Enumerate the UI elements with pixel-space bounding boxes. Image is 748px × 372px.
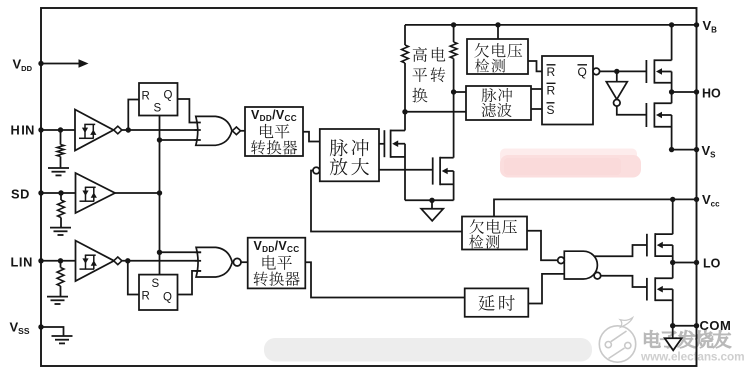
node HIN-R — [58, 127, 63, 132]
svg-text:HO: HO — [702, 87, 721, 101]
pulse amplifier U3 — [320, 129, 379, 181]
node LO — [670, 260, 675, 265]
svg-text:Q: Q — [163, 292, 172, 304]
transistor Q3 gate bar — [645, 60, 647, 83]
svg-text:Q: Q — [164, 90, 173, 102]
resistor R4 — [404, 25, 406, 45]
wire common source — [405, 199, 454, 201]
G3 output bubble — [594, 272, 601, 279]
transistor Q1 gate bar — [383, 130, 385, 157]
wire U5 to U6 Sbar — [531, 108, 542, 110]
VDD arrowhead — [79, 59, 89, 67]
transistor Q5 drain tap — [655, 233, 673, 235]
svg-text:HIN: HIN — [11, 123, 35, 138]
U6 Qbar bubble — [593, 68, 600, 75]
U2 label line2 — [260, 124, 273, 138]
wire HIN — [41, 129, 75, 131]
pulse filter U5 — [466, 86, 531, 120]
transistor Q1 source tap — [391, 156, 405, 158]
U3 label — [330, 139, 348, 156]
label high-level-shift — [413, 47, 427, 62]
wire U11 to G3 — [528, 274, 564, 304]
transistor Q4 gate bar — [645, 103, 647, 127]
pin VDD stub — [41, 63, 81, 65]
ground (COM) — [672, 326, 674, 339]
wire UV2 to U3 (feedback) — [311, 171, 462, 232]
resistor R2 (SD pulldown) — [60, 193, 62, 200]
wire Q1 source riser — [404, 144, 406, 201]
wire U1 Q to NOR G1 — [178, 99, 201, 123]
wire Q3 drain riser — [671, 25, 673, 60]
transistor Q6 body arrow — [657, 286, 663, 293]
transistor Q5 channel bar — [654, 233, 656, 257]
transistor Q2 body arrow — [442, 168, 448, 175]
NOR gate G1 — [196, 116, 232, 145]
wire VCC rail — [494, 199, 697, 216]
wire U2 to U3 — [303, 132, 320, 142]
decor — [500, 149, 637, 164]
node SD-R — [58, 190, 63, 195]
RS latch U6 — [542, 56, 593, 125]
ground (R1) — [48, 168, 69, 175]
svg-text:S: S — [152, 278, 160, 290]
level shifter U10 — [248, 238, 306, 289]
ground (R2) — [50, 228, 71, 235]
wire G1 to U2 — [241, 130, 246, 132]
UV detector U4 — [467, 39, 528, 74]
transistor Q4 source tap — [654, 126, 671, 128]
node VS — [669, 147, 674, 152]
wire LIN to U12 R — [128, 261, 139, 295]
NOR gate G2 — [196, 247, 232, 277]
A1 output diamond bubble — [114, 126, 122, 134]
A3 output diamond bubble — [114, 257, 122, 265]
node LIN-R — [58, 258, 63, 263]
resistor R5 — [453, 25, 455, 42]
wire U12 Q to G2 — [178, 271, 202, 295]
U9 label — [469, 219, 484, 234]
wire Q5 source riser — [672, 245, 674, 262]
svg-text:R: R — [142, 291, 150, 303]
wire Q3 source riser — [671, 72, 673, 93]
wire U3 to Q1 gate — [379, 143, 384, 145]
transistor Q1 channel bar — [390, 130, 392, 158]
RS latch U1 — [139, 83, 178, 116]
delay U11 — [465, 288, 529, 316]
resistor R1 (HIN pulldown) — [60, 130, 62, 145]
wire S tee to G2 — [160, 251, 202, 253]
ground (R3) — [47, 297, 68, 304]
wire U6 to Q3 gate — [600, 70, 647, 72]
wire A3 out — [122, 260, 201, 262]
transistor Q2 channel bar — [439, 157, 441, 185]
svg-text:SD: SD — [11, 186, 30, 201]
wire HIN to U1 R input — [128, 100, 139, 131]
wire U10 to delay U11 — [305, 262, 464, 297]
U10 label line3 — [254, 272, 268, 286]
G1 output diamond bubble — [232, 127, 240, 135]
wire Q2 source riser — [453, 171, 455, 200]
transistor Q5 source tap — [655, 255, 673, 257]
G1 input stubs — [195, 122, 201, 124]
UV detector U9 — [462, 217, 527, 250]
transistor Q2 drain tap — [440, 157, 454, 159]
wire Q6 drain riser — [672, 263, 674, 279]
transistor Q3 drain tap — [654, 59, 671, 61]
NAND gate G3 — [564, 251, 597, 279]
wire SD — [41, 192, 76, 194]
wire U5 to U6 Rbar2 — [531, 88, 542, 90]
svg-text:S: S — [547, 103, 555, 117]
wire LIN — [41, 260, 76, 262]
wire VSS — [41, 327, 64, 336]
transistor Q1 drain tap — [391, 130, 405, 132]
transistor Q2 source tap — [440, 183, 454, 185]
transistor Q6 channel bar — [654, 277, 656, 301]
transistor Q6 drain tap — [655, 277, 673, 279]
G2 input stubs — [195, 251, 201, 253]
svg-text:Q: Q — [578, 65, 587, 79]
wire R4 to U5 — [405, 111, 466, 113]
wire Q4 drain riser — [671, 92, 673, 103]
transistor Q4 body arrow — [656, 112, 662, 119]
transistor Q6 source tap — [655, 299, 673, 301]
wire G3 to Q6 gate — [601, 276, 647, 287]
wire Q1 drain riser — [404, 112, 406, 131]
svg-text:LO: LO — [703, 257, 721, 271]
resistor R3 (LIN pulldown) — [60, 261, 62, 268]
svg-text:www.elecfans.com: www.elecfans.com — [640, 349, 745, 363]
transistor Q5 body arrow — [657, 242, 663, 249]
U8 output bubble — [614, 100, 621, 107]
transistor Q5 gate bar — [646, 234, 648, 257]
svg-text:S: S — [154, 103, 162, 115]
transistor Q3 channel bar — [653, 59, 655, 83]
wire A1 out — [122, 129, 201, 131]
svg-text:COM: COM — [700, 318, 732, 333]
U2 label line3 — [251, 140, 265, 154]
U3 enable bubble — [313, 167, 320, 174]
transistor Q4 channel bar — [653, 102, 655, 127]
transistor Q6 gate bar — [646, 278, 648, 301]
wire VB rail — [405, 24, 697, 26]
transistor Q3 source tap — [654, 82, 671, 84]
wire Q4 source riser — [671, 115, 673, 150]
transistor Q2 gate bar — [432, 157, 434, 184]
wire S tee to G1 — [160, 139, 201, 141]
wire U8 to Q4 gate — [617, 106, 647, 115]
wire VB rail to U4 — [497, 25, 499, 39]
svg-text:R: R — [547, 84, 556, 98]
transistor Q3 body arrow — [656, 68, 662, 75]
input buffer A3 (LIN) — [76, 241, 115, 281]
U11 label — [478, 295, 494, 311]
wire Q5 drain riser — [672, 199, 674, 234]
transistor Q1 body arrow — [392, 140, 398, 147]
U4 label — [474, 43, 489, 58]
transistor Q4 drain tap — [654, 102, 671, 104]
RS latch U12 — [139, 275, 178, 310]
ground (level shift) — [421, 209, 443, 221]
wire A2 out — [115, 192, 160, 194]
input buffer A1 (HIN) — [75, 110, 114, 151]
wire U9 to G3 — [527, 231, 558, 260]
wire U4 to U6 Rbar — [528, 61, 542, 71]
svg-text:R: R — [547, 65, 556, 79]
U10 label line2 — [262, 255, 275, 269]
level shifter U2 — [245, 107, 303, 156]
wire Q6 source riser — [672, 289, 674, 326]
wire Q2 drain riser — [453, 92, 455, 158]
input buffer A2 (SD) — [76, 173, 116, 213]
svg-text:R: R — [142, 91, 150, 103]
wire U3 to Q2 gate — [379, 169, 433, 171]
wire G2 to U10 — [241, 261, 248, 263]
svg-text:LIN: LIN — [11, 254, 33, 269]
node COM — [670, 323, 675, 328]
U5 label — [482, 88, 497, 102]
ground (VSS) — [52, 336, 73, 343]
inverter U8 — [616, 71, 618, 81]
G2 output bubble — [233, 258, 241, 266]
node HO — [669, 89, 674, 94]
wire S line (SD bus) — [159, 116, 161, 275]
wire G3 to Q5 gate — [595, 245, 647, 256]
wire R5 to U5 — [454, 91, 466, 93]
G3 input bubble — [558, 257, 565, 264]
